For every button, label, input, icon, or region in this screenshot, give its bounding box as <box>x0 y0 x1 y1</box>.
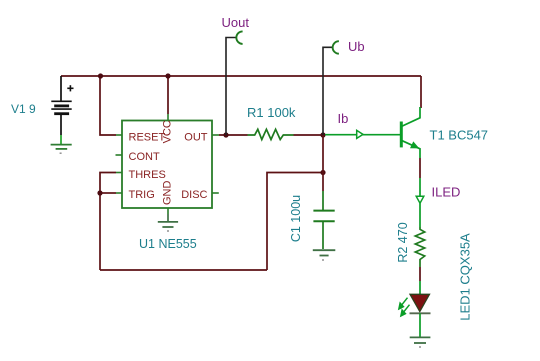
svg-text:C1 100u: C1 100u <box>289 195 303 242</box>
ground (LED1) <box>410 337 431 347</box>
current probe Ib (arrow on base wire) <box>357 130 363 138</box>
svg-text:Uout: Uout <box>222 15 250 30</box>
ground (U1 GND pin) <box>158 214 178 231</box>
svg-text:U1 NE555: U1 NE555 <box>139 237 197 251</box>
svg-text:CONT: CONT <box>129 151 160 163</box>
ground (battery negative) <box>51 135 72 153</box>
junction: C1 top node <box>320 170 325 175</box>
svg-text:OUT: OUT <box>184 131 208 143</box>
svg-text:T1 BC547: T1 BC547 <box>430 128 489 143</box>
wire: base node down to C1 <box>322 135 324 191</box>
wire: riser to C1 node <box>267 173 323 271</box>
svg-text:Ub: Ub <box>348 39 365 54</box>
junction: rail / VCC drop <box>165 73 170 78</box>
svg-text:LED1 CQX35A: LED1 CQX35A <box>458 233 473 321</box>
LED1 emission arrows <box>399 298 410 316</box>
voltage probe Ub <box>323 41 339 135</box>
svg-text:THRES: THRES <box>129 169 166 181</box>
wire: bottom return <box>100 269 267 271</box>
wire: rail down to VCC pin <box>167 76 169 114</box>
svg-text:DISC: DISC <box>181 189 207 201</box>
svg-text:GND: GND <box>162 181 174 206</box>
voltage probe Uout <box>226 31 243 135</box>
current probe ILED (arrow on emitter wire) <box>416 178 424 227</box>
junction: TRIG on left bus <box>97 190 102 195</box>
wire: emitter to ILED probe <box>419 158 421 178</box>
wire: base lead (green) <box>325 134 400 136</box>
resistor R1 <box>248 129 294 139</box>
junction: base node <box>320 132 325 137</box>
svg-text:Ib: Ib <box>338 111 349 126</box>
svg-text:ILED: ILED <box>432 185 461 200</box>
wire: TRIG tap <box>100 192 116 194</box>
resistor R2 (vertical) <box>415 227 424 267</box>
svg-text:R2 470: R2 470 <box>396 222 410 262</box>
ground (C1) <box>313 250 336 260</box>
capacitor C1 <box>313 191 334 249</box>
wire: top power rail <box>61 75 421 77</box>
svg-text:RESET: RESET <box>129 131 166 143</box>
junction: OUT / Uout probe <box>223 132 228 137</box>
wire: R1 to base node <box>294 134 324 136</box>
wire: THRES to left bus and down <box>100 173 116 271</box>
svg-text:V1 9: V1 9 <box>11 102 36 116</box>
wire: rail corner down to T1 collector <box>420 76 422 108</box>
junction: rail / RESET drop <box>98 73 103 78</box>
IC U1 NE555 box <box>116 114 220 214</box>
wire: OUT pin to R1 <box>219 134 248 136</box>
wire: rail down to RESET pin <box>100 76 116 135</box>
wire: R2 to LED1 <box>419 267 421 281</box>
LED LED1 <box>399 281 431 337</box>
battery V1 <box>51 76 73 135</box>
transistor T1 BC547 <box>401 107 420 158</box>
svg-text:R1 100k: R1 100k <box>247 105 296 120</box>
svg-text:VCC: VCC <box>162 120 174 143</box>
svg-text:TRIG: TRIG <box>129 189 155 201</box>
